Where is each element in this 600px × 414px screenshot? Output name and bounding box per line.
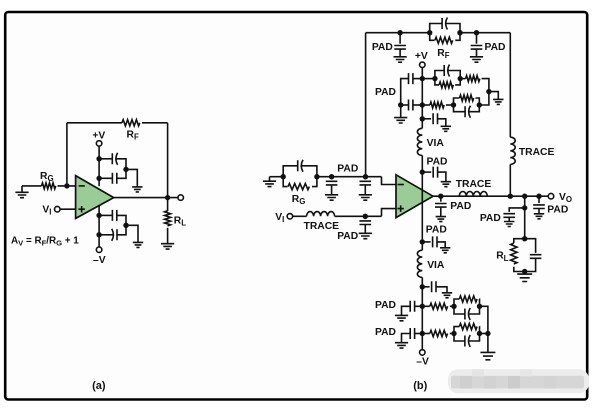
svg-text:PAD: PAD — [427, 157, 448, 168]
svg-text:+V: +V — [415, 51, 428, 62]
svg-text:VIA: VIA — [427, 260, 445, 271]
svg-text:PAD: PAD — [372, 42, 393, 53]
svg-text:PAD: PAD — [337, 163, 358, 174]
svg-text:PAD: PAD — [480, 213, 501, 224]
svg-text:VIA: VIA — [427, 138, 445, 149]
svg-text:PAD: PAD — [426, 224, 447, 235]
svg-text:PAD: PAD — [450, 201, 471, 212]
svg-text:PAD: PAD — [485, 42, 506, 53]
svg-text:PAD: PAD — [547, 204, 568, 215]
svg-text:PAD: PAD — [337, 231, 358, 242]
svg-text:PAD: PAD — [375, 300, 396, 311]
svg-text:–V: –V — [93, 255, 106, 266]
svg-text:TRACE: TRACE — [304, 221, 340, 232]
svg-text:(a): (a) — [92, 380, 106, 392]
svg-text:PAD: PAD — [375, 87, 396, 98]
svg-text:TRACE: TRACE — [519, 147, 555, 158]
svg-text:TRACE: TRACE — [456, 179, 492, 190]
svg-text:(b): (b) — [413, 380, 427, 392]
svg-text:–V: –V — [416, 357, 429, 368]
svg-text:PAD: PAD — [375, 327, 396, 338]
